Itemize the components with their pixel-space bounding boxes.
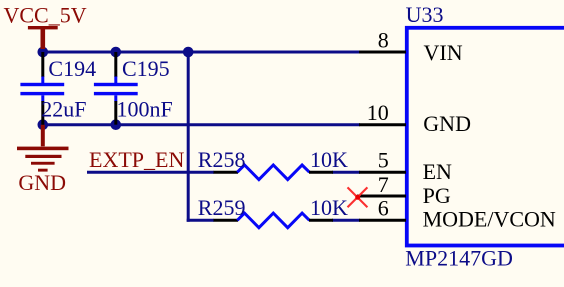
capacitor C194 bbox=[20, 52, 64, 125]
svg-text:6: 6 bbox=[378, 196, 389, 221]
wire R258 to pin 5 bbox=[332, 171, 360, 174]
pin 7 PG stub bbox=[357, 195, 406, 198]
svg-text:U33: U33 bbox=[406, 2, 444, 27]
junction node at VCC stem / C194 top bbox=[38, 47, 49, 58]
svg-text:EN: EN bbox=[423, 159, 452, 184]
svg-text:GND: GND bbox=[18, 170, 66, 195]
svg-text:10K: 10K bbox=[310, 147, 348, 172]
junction node at C195 bottom bbox=[111, 119, 122, 130]
svg-text:PG: PG bbox=[423, 183, 451, 208]
resistor R259 bbox=[214, 213, 334, 228]
wire EXTP_EN horizontal bbox=[87, 171, 214, 174]
svg-text:10: 10 bbox=[367, 100, 389, 125]
junction node at C195 top bbox=[111, 47, 122, 58]
ground symbol bbox=[17, 125, 69, 172]
svg-text:VCC_5V: VCC_5V bbox=[4, 2, 87, 27]
power symbol VCC_5V bar bbox=[28, 26, 58, 49]
svg-text:R259: R259 bbox=[198, 195, 246, 220]
junction node top rail to pull-up bus bbox=[183, 47, 194, 58]
svg-text:5: 5 bbox=[378, 147, 389, 172]
svg-text:7: 7 bbox=[378, 172, 389, 197]
svg-text:R258: R258 bbox=[198, 147, 246, 172]
capacitor C195 bbox=[94, 52, 138, 125]
svg-text:EXTP_EN: EXTP_EN bbox=[89, 147, 184, 172]
wire bottom GND rail bbox=[41, 123, 360, 126]
wire top VIN rail bbox=[41, 51, 360, 54]
svg-text:100nF: 100nF bbox=[117, 97, 173, 122]
pin 8 VIN stub bbox=[359, 51, 406, 54]
svg-text:C195: C195 bbox=[122, 56, 170, 81]
pin 6 MODE/VCON stub bbox=[359, 219, 406, 222]
wire R259 to pin 6 bbox=[332, 219, 360, 222]
no-connect X on pin 7 bbox=[348, 187, 368, 207]
IC U33 body bbox=[407, 28, 564, 246]
resistor R258 bbox=[214, 165, 334, 180]
pin 10 GND stub bbox=[359, 123, 406, 126]
svg-text:22uF: 22uF bbox=[41, 97, 86, 122]
svg-text:10K: 10K bbox=[310, 195, 348, 220]
svg-text:MODE/VCON: MODE/VCON bbox=[423, 206, 556, 231]
svg-text:VIN: VIN bbox=[424, 40, 463, 65]
svg-text:C194: C194 bbox=[48, 56, 96, 81]
wire vertical pull-up bus bbox=[187, 51, 190, 222]
svg-text:MP2147GD: MP2147GD bbox=[405, 245, 513, 270]
pin 5 EN stub bbox=[359, 171, 406, 174]
junction node at C194 bottom / GND bbox=[38, 119, 49, 130]
wire R259 corner horizontal bbox=[187, 219, 214, 222]
svg-text:8: 8 bbox=[378, 27, 389, 52]
svg-text:GND: GND bbox=[423, 111, 471, 136]
